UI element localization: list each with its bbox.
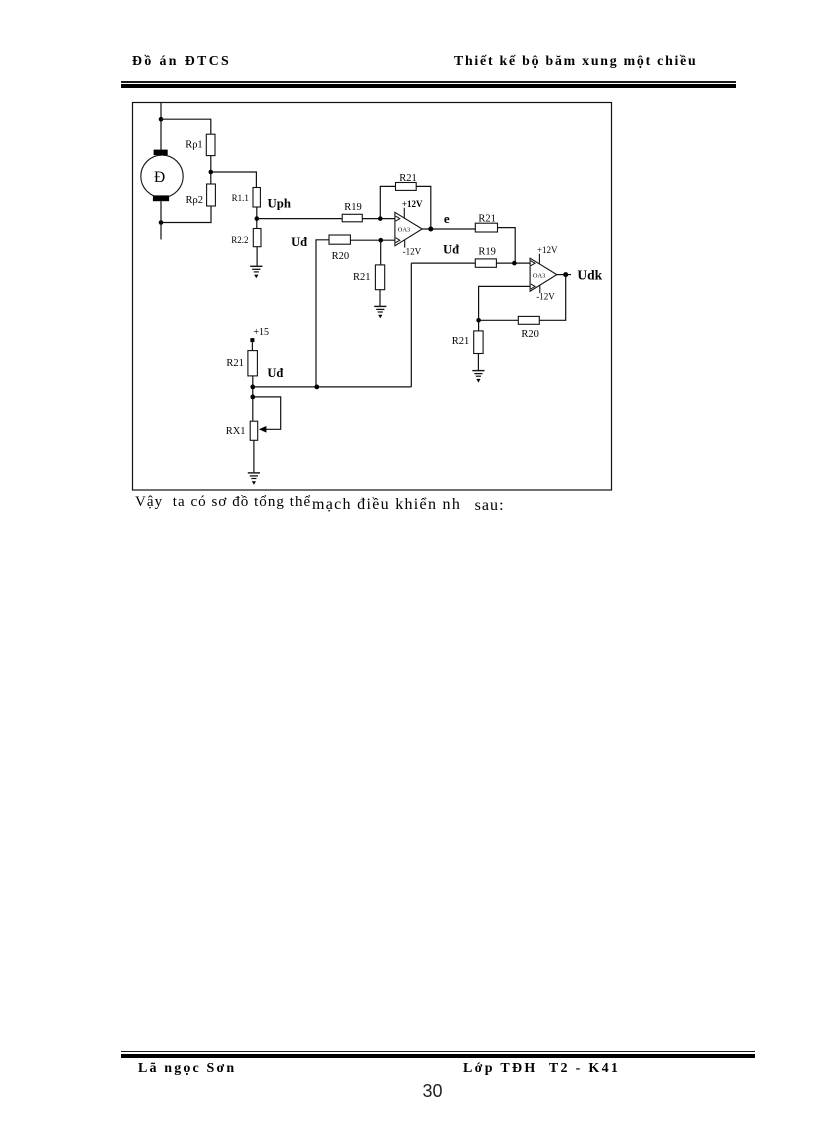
body text line — [135, 494, 311, 511]
svg-text:Uđ: Uđ — [443, 243, 459, 257]
node junction J5 (feedback tap) — [378, 216, 383, 221]
header rule thin line — [121, 81, 736, 83]
wire: R21 shunt to ground — [379, 290, 381, 306]
wire: R21 shunt to ground (amp2) — [477, 354, 479, 371]
potentiometer RX1 — [250, 421, 258, 440]
footer rule thick line — [121, 1054, 755, 1058]
svg-text:R1.1: R1.1 — [232, 193, 249, 203]
wire: Rp1 bottom to J2 — [210, 156, 212, 172]
page number — [423, 1081, 443, 1102]
op-amp U1 -input chevron — [396, 238, 400, 243]
motor brush bottom — [153, 195, 169, 201]
node junction J1 — [159, 117, 164, 122]
ground G3 — [472, 371, 484, 383]
wire: +15 to R21 top — [251, 342, 253, 351]
wire: op-amp1 output to R21 series — [422, 228, 475, 230]
wire: J11 up to op-amp2 - input — [479, 286, 530, 320]
node junction J9 — [512, 261, 517, 266]
svg-text:+15: +15 — [253, 327, 269, 338]
wire: J2 to Rp2 top — [210, 172, 212, 184]
svg-text:e: e — [444, 211, 450, 226]
op-amp U1 +input chevron — [396, 216, 400, 221]
motor brush top — [154, 150, 168, 156]
wire: Uph node to R19 — [257, 218, 342, 220]
resistor R21 (amp1 shunt) — [375, 265, 384, 290]
svg-text:R21: R21 — [452, 336, 470, 347]
potentiometer wiper arrow — [259, 426, 267, 433]
resistor R21 (amp1 feedback) — [396, 183, 417, 191]
op-amp U1 -12V pin — [404, 240, 406, 248]
wire: feedback up from J5 to R21 — [380, 186, 395, 218]
wire: op-amp2 output stub — [557, 274, 571, 276]
resistor R21 (amp2 shunt) — [474, 331, 483, 354]
node junction J10 (Udk) — [563, 272, 568, 277]
resistor R19 (amp2 input) — [475, 259, 496, 267]
wire: left vertical below motor — [160, 201, 162, 239]
resistor R20 (amp1 - input) — [329, 235, 350, 244]
ground G1 — [250, 266, 262, 278]
ground G4 — [248, 473, 260, 485]
resistor R21 (bias) — [248, 351, 258, 376]
op-amp U2 -12V pin — [539, 285, 541, 293]
svg-text:R21: R21 — [478, 214, 496, 225]
wire: R20 left down to Ud rail — [316, 240, 329, 387]
svg-text:OA3: OA3 — [398, 227, 410, 234]
svg-text:R19: R19 — [478, 247, 496, 258]
schematic frame box — [133, 103, 612, 491]
header left title — [132, 53, 231, 69]
svg-text:R21: R21 — [226, 358, 244, 369]
node junction J6 — [379, 238, 384, 243]
wire: J6 down to R21 shunt — [380, 240, 382, 265]
svg-text:R20: R20 — [521, 329, 539, 340]
wire: Ud rail to R19 (amp2) — [411, 262, 475, 264]
svg-text:-12V: -12V — [403, 247, 422, 257]
resistor R1.1 — [253, 188, 260, 208]
node junction J8 (output e) — [428, 227, 433, 232]
op-amp U2 +12V pin — [538, 254, 540, 264]
op-amp U2 +input chevron — [531, 261, 535, 266]
wire: wiper loop — [253, 397, 281, 429]
op-amp U2 -input chevron — [531, 284, 535, 289]
node junction J2 — [209, 170, 214, 175]
footer class name — [463, 1061, 620, 1077]
svg-text:Uđ: Uđ — [291, 235, 307, 249]
svg-text:+12V: +12V — [537, 245, 558, 255]
node junction J13 (wiper tap) — [250, 395, 255, 400]
node junction J12 (Uđ) — [250, 385, 255, 390]
svg-text:RX1: RX1 — [226, 426, 246, 437]
footer author name — [138, 1061, 236, 1077]
svg-text:Rρ2: Rρ2 — [186, 195, 204, 206]
op-amp U1 +12V pin — [403, 208, 405, 219]
wire: J11 down to R21 shunt (amp2) — [478, 320, 480, 331]
svg-text:-12V: -12V — [536, 291, 555, 301]
node junction J3 — [159, 220, 164, 225]
ground G2 — [374, 306, 386, 318]
resistor Rp2 — [207, 184, 216, 206]
svg-text:Đ: Đ — [154, 169, 165, 186]
svg-text:+12V: +12V — [402, 199, 423, 209]
resistor Rp1 — [206, 134, 215, 155]
wire: Rp2 bottom to motor branch — [161, 206, 211, 223]
svg-text:OA3: OA3 — [533, 272, 545, 279]
wire: R2.2 bottom to ground — [256, 247, 258, 266]
svg-text:R20: R20 — [332, 251, 350, 262]
wire: R19 to op-amp1 + input — [362, 218, 395, 220]
wire: output down to R20 feedback — [539, 275, 565, 321]
resistor R19 (amp1 input) — [342, 214, 362, 222]
svg-text:Uph: Uph — [268, 196, 291, 210]
wire: R1.1 bottom to R2.2 top — [256, 207, 258, 229]
resistor R21 (series to amp2) — [475, 223, 497, 232]
resistor R2.2 — [253, 229, 261, 247]
wire: R19 to op-amp2 + input — [496, 262, 530, 264]
node junction J7 (Ud rail tap) — [314, 385, 319, 390]
header right title — [454, 53, 698, 69]
svg-text:Rρ1: Rρ1 — [185, 140, 203, 151]
svg-text:Uđ: Uđ — [267, 366, 283, 380]
node junction J11 — [476, 318, 481, 323]
wire: R21 bias down to RX1 — [252, 376, 254, 421]
svg-text:R2.2: R2.2 — [231, 235, 248, 245]
supply terminal square — [250, 338, 254, 342]
wire: RX1 bottom to ground — [253, 440, 255, 472]
wire: Uđ rail to the right riser — [253, 263, 411, 387]
node junction J4 (Uph node) — [254, 216, 259, 221]
svg-text:Udk: Udk — [577, 267, 602, 282]
op-amp U2 triangle — [530, 258, 557, 291]
wire: R20 feedback to J11 — [479, 319, 519, 321]
wire: R21 series down to amp2 input node — [498, 228, 516, 264]
wire: J1 to Rp1 top — [161, 119, 211, 134]
motor M (circle) — [141, 155, 183, 197]
svg-text:R21: R21 — [399, 173, 417, 184]
svg-text:R19: R19 — [344, 202, 362, 213]
wire: left supply vertical (top) — [160, 103, 162, 150]
op-amp U1 triangle — [395, 212, 422, 246]
wire: R20 to op-amp1 - input — [350, 239, 395, 241]
resistor R20 (amp2 feedback) — [518, 316, 539, 324]
footer rule thin line — [121, 1051, 755, 1052]
svg-text:R21: R21 — [353, 272, 371, 283]
wire: feedback R21 to output node — [416, 186, 431, 229]
wire: J2 to R1.1 top — [211, 172, 257, 188]
header rule thick line — [121, 84, 736, 88]
